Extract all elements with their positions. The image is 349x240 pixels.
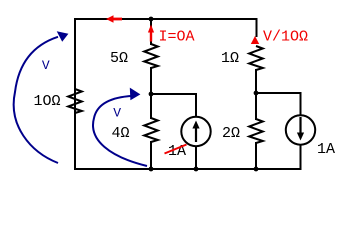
node A dot (149, 17, 154, 22)
node dot bottom under 2-ohm (254, 167, 259, 172)
blue loop arrow big (V around left loop) (14, 37, 58, 163)
red current arrow V/10 up at 1-ohm (251, 36, 259, 44)
wire bottom horizontal (74, 168, 302, 170)
resistor 5ohm (144, 44, 158, 68)
node dot bottom under 4-ohm (149, 167, 154, 172)
svg-text:4Ω: 4Ω (112, 125, 130, 142)
red current arrow I=0A up at node A (150, 32, 152, 42)
wire node A to 5-ohm top (150, 19, 152, 45)
node C dot (254, 91, 259, 96)
svg-text:I=OA: I=OA (159, 29, 195, 46)
svg-text:V: V (42, 58, 50, 73)
node B dot (149, 92, 154, 97)
wire current source I1 bottom lead (195, 146, 197, 169)
current source I1 arrow up (195, 128, 197, 143)
wire 4-ohm bottom to bottom rail (150, 141, 152, 169)
wire left vertical (74, 18, 76, 170)
current source I1 1A circle (181, 117, 210, 146)
wire right branch top (256, 18, 258, 37)
red current arrow left on top wire (106, 15, 114, 23)
svg-text:1A: 1A (317, 141, 335, 158)
wire 5-ohm bottom to node B (150, 67, 152, 95)
wire current source I2 bottom lead (300, 144, 302, 170)
svg-text:V/1OΩ: V/1OΩ (263, 29, 308, 46)
resistor 4ohm (144, 118, 158, 142)
wire node B to 4-ohm top (150, 94, 152, 119)
svg-text:5Ω: 5Ω (110, 50, 128, 67)
svg-text:1OΩ: 1OΩ (34, 93, 61, 110)
svg-text:1Ω: 1Ω (221, 50, 239, 67)
svg-text:V: V (113, 106, 121, 121)
node dot bottom under I1 (194, 167, 199, 172)
wire node C to 2-ohm top (255, 93, 257, 120)
wire 1-ohm bottom to node C (255, 69, 257, 94)
resistor 10ohm (68, 89, 82, 113)
resistor 2ohm (249, 119, 263, 143)
svg-text:2Ω: 2Ω (222, 125, 240, 142)
wire 2-ohm bottom to bottom rail (255, 142, 257, 169)
current source I2 1A circle (286, 115, 315, 144)
wire top horizontal (74, 18, 258, 20)
wire node B to current source I1 top (151, 94, 196, 118)
blue loop arrow small (V across 4-ohm) (93, 96, 147, 166)
wire node C to current source I2 top (256, 93, 301, 116)
resistor 1ohm (249, 46, 263, 70)
red strike through 1A (165, 145, 187, 154)
current source I2 arrow down (299, 117, 301, 133)
